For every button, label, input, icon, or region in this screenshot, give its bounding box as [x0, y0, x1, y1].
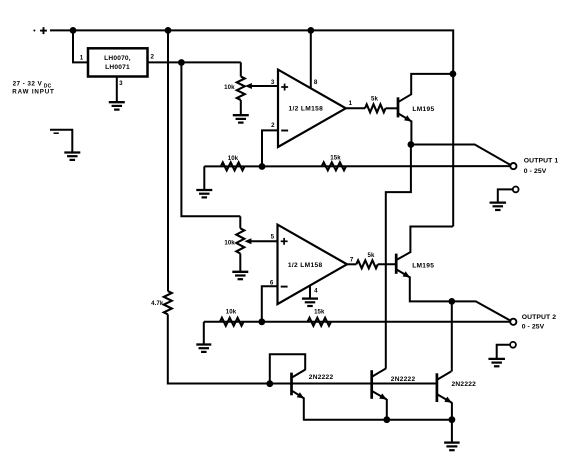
- ground: regulator pin 3: [109, 102, 125, 109]
- potentiometer 10k (channel 2 setpoint): [224, 216, 244, 271]
- wire: op-amp 1 inverting input: [262, 130, 279, 166]
- svg-text:OUTPUT 1: OUTPUT 1: [524, 158, 559, 165]
- svg-text:7: 7: [350, 256, 354, 263]
- svg-text:1/2 LM158: 1/2 LM158: [288, 106, 323, 113]
- wire: pot 1 wiper to op-amp pin 3: [245, 83, 279, 89]
- junction: reference output splits to pot 2: [178, 59, 185, 66]
- svg-text:LM195: LM195: [412, 263, 434, 270]
- svg-text:0 - 25V: 0 - 25V: [522, 323, 545, 330]
- wire: - input to system ground: [50, 130, 72, 153]
- transistor Q3 2N2222 (current mirror reference): [292, 370, 334, 399]
- junction: Q3 collector-base tie: [266, 380, 273, 387]
- svg-text:5k: 5k: [371, 95, 378, 102]
- wire: current mirror base line: [292, 383, 438, 385]
- junction: output 2 emitter node: [448, 298, 455, 305]
- svg-text:1: 1: [80, 54, 84, 61]
- junction: +V to 4.7k bias rail: [165, 27, 172, 34]
- node: + raw input terminal: [33, 27, 47, 34]
- svg-text:27 - 32 V: 27 - 32 V: [13, 80, 43, 87]
- ground: 10k gain resistor 2: [196, 345, 211, 352]
- wire: Q2 collector to +V rail: [410, 227, 453, 254]
- svg-text:OUTPUT 2: OUTPUT 2: [522, 314, 557, 321]
- ground: output 2 return: [488, 359, 505, 366]
- potentiometer 10k (channel 1 setpoint): [224, 62, 245, 115]
- wire: op-amp 2 pin 4 lead: [309, 286, 311, 298]
- ground: output 1 return: [490, 203, 507, 210]
- resistor 15k (op-amp 1 feedback): [322, 155, 346, 171]
- wire: feedback line 2: [204, 321, 510, 323]
- resistor 15k (op-amp 2 feedback): [308, 309, 332, 326]
- wire: op-amp 2 inverting input: [262, 286, 278, 321]
- label: op-amp pin 6: [270, 279, 274, 286]
- wire: 10k ground stub 1: [203, 166, 205, 190]
- label: OUTPUT 2 0-25V: [522, 314, 557, 330]
- wire: output 1 return to ground: [498, 189, 513, 202]
- wire: reference rail down to pot 2: [181, 63, 240, 217]
- svg-text:5: 5: [271, 234, 275, 241]
- wire: feedback line 1: [204, 165, 510, 167]
- junction: Q1 collector on +V rail: [450, 71, 457, 78]
- wire: op-amp 2 output lead: [347, 263, 356, 265]
- wire: 10k ground stub 2: [203, 322, 205, 345]
- junction: inverting input node 1: [259, 163, 266, 170]
- svg-text:2N2222: 2N2222: [309, 374, 334, 381]
- svg-text:10k: 10k: [224, 239, 235, 246]
- svg-text:0 - 25V: 0 - 25V: [524, 168, 547, 175]
- wire: common emitter line: [304, 419, 452, 421]
- svg-text:2N2222: 2N2222: [391, 376, 416, 383]
- wire: 5k to Q2 base: [378, 263, 396, 265]
- wire: output 2 node to current sink Q5: [451, 301, 453, 371]
- op-amp U2b 1/2 LM158: [278, 225, 348, 305]
- label: regulator pin 2: [150, 53, 154, 60]
- wire: Q3 collector loop to base: [270, 354, 305, 383]
- wire: Q2 emitter to output 2 node: [410, 277, 511, 321]
- resistor 4.7k (current source bias): [151, 291, 172, 314]
- svg-text:4: 4: [314, 287, 318, 294]
- junction: inverting input node 2: [258, 318, 265, 325]
- label: 27-32 VDC RAW INPUT: [12, 80, 54, 95]
- label: op-amp pin 8: [314, 79, 318, 86]
- svg-text:1: 1: [349, 100, 353, 107]
- label: OUTPUT 1 0-25V: [524, 158, 559, 175]
- resistor 5k (channel 2 base drive): [356, 252, 378, 268]
- wire: Q3 emitter down: [303, 398, 305, 421]
- svg-text:10k: 10k: [228, 155, 239, 162]
- wire: op-amp 1 output lead: [346, 107, 365, 109]
- wire: Q1 emitter down to node: [410, 121, 412, 145]
- label: op-amp pin 1 output: [349, 100, 353, 107]
- label: op-amp pin 7 output: [350, 256, 354, 263]
- svg-text:10k: 10k: [226, 309, 237, 316]
- svg-text:10k: 10k: [224, 84, 235, 91]
- wire: 5k to Q1 base: [386, 107, 398, 109]
- terminal: output 2: [510, 319, 516, 325]
- junction: raw input to regulator pin 1: [70, 27, 77, 34]
- svg-text:8: 8: [314, 79, 318, 86]
- junction: output 1 emitter node: [408, 141, 415, 148]
- wire: Q5 emitter down: [451, 402, 453, 420]
- terminal: output 2 return: [510, 342, 516, 348]
- ground: 10k gain resistor 1: [196, 190, 212, 197]
- wire: op-amp 1 pin 8 to +V: [310, 30, 312, 88]
- transistor Q5 2N2222 (current sink, output 2): [437, 371, 476, 402]
- op-amp U2a 1/2 LM158: [278, 70, 346, 147]
- wire: emitter node to output 1 terminal: [411, 145, 511, 165]
- svg-text:LM195: LM195: [412, 106, 434, 113]
- ground: pot 2 bottom: [232, 272, 248, 279]
- transistor Q4 2N2222 (current sink, output 1): [372, 368, 416, 399]
- label: regulator pin 1: [80, 54, 84, 61]
- terminal: output 1: [510, 163, 516, 169]
- label: op-amp pin 4: [314, 287, 318, 294]
- transistor Q2 LM195 (pass, output 2): [396, 252, 434, 278]
- svg-text:2N2222: 2N2222: [452, 381, 477, 388]
- svg-text:4.7k: 4.7k: [151, 300, 164, 307]
- wire: output 2 return to ground: [497, 345, 510, 359]
- wire: regulator pin 2 reference output: [148, 61, 241, 63]
- wire: top +V rail: [50, 30, 453, 226]
- junction: Q5 emitter / ground node: [449, 416, 456, 423]
- wire: Q1 collector to +V rail: [411, 74, 453, 95]
- svg-text:15k: 15k: [330, 155, 341, 162]
- label: op-amp pin 5: [271, 234, 275, 241]
- svg-text:3: 3: [119, 80, 123, 87]
- ground: current mirror common: [444, 443, 460, 451]
- ground: input common: [64, 153, 80, 160]
- wire: regulator pin 1 lead: [73, 30, 88, 62]
- svg-text:1/2 LM158: 1/2 LM158: [288, 262, 323, 269]
- wire: pot 2 wiper to op-amp pin 5: [244, 238, 278, 244]
- junction: Q4 emitter on common line: [383, 416, 390, 423]
- transistor Q1 LM195 (pass, output 1): [398, 94, 434, 121]
- svg-text:LH0070,: LH0070,: [104, 55, 131, 62]
- wire: 4.7k to current mirror base line: [168, 314, 292, 383]
- wire: regulator pin 3 ground lead: [116, 77, 118, 103]
- svg-text:RAW INPUT: RAW INPUT: [12, 89, 54, 96]
- label: op-amp pin 2: [271, 122, 275, 129]
- resistor 10k (op-amp 1 gain set): [221, 155, 245, 170]
- junction: +V to op-amp pin 8: [307, 27, 314, 34]
- node: - input terminal tick: [54, 132, 59, 134]
- svg-text:2: 2: [150, 53, 154, 60]
- svg-text:5k: 5k: [368, 252, 375, 259]
- resistor 5k (channel 1 base drive): [365, 95, 386, 112]
- ground: pot 1 bottom: [233, 115, 249, 122]
- terminal: output 1 return: [513, 187, 519, 193]
- wire: +V down to 4.7k: [167, 30, 169, 291]
- svg-text:LH0071: LH0071: [105, 64, 130, 71]
- voltage regulator U1 LH0070/LH0071: [88, 48, 148, 76]
- svg-text:15k: 15k: [314, 309, 325, 316]
- resistor 10k (op-amp 2 gain set): [220, 309, 244, 326]
- wire: emitter line to ground: [451, 420, 453, 443]
- wire: Q4 emitter down: [386, 399, 388, 420]
- label: op-amp pin 3: [271, 79, 275, 86]
- label: regulator pin 3: [119, 80, 123, 87]
- wire: emitter node to current sink Q4: [386, 145, 411, 369]
- svg-text:3: 3: [271, 79, 275, 86]
- ground: op-amp pin 4: [302, 299, 318, 306]
- svg-text:2: 2: [271, 122, 275, 129]
